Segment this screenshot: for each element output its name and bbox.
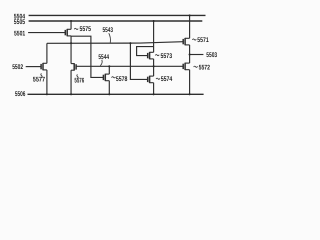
wire 5502 input line xyxy=(26,66,41,68)
svg-text:5576: 5576 xyxy=(74,78,84,85)
transistor Q5577 xyxy=(41,63,47,70)
wire 5504 to Q5571 drain xyxy=(189,15,191,38)
wire Q5573 gate-drain loop xyxy=(137,47,154,56)
transistor Q5575 xyxy=(65,29,71,36)
wire 5505 to Q5573 drain xyxy=(153,21,155,52)
svg-text:5577: 5577 xyxy=(33,76,45,83)
leader curve for 5544 xyxy=(100,60,102,66)
wire 5501 input line xyxy=(28,32,65,34)
svg-text:5503: 5503 xyxy=(206,52,217,59)
wire 5506 supply line xyxy=(28,93,204,95)
leader tilde for 5578 xyxy=(112,77,116,78)
svg-text:5505: 5505 xyxy=(14,19,25,26)
leader tilde for 5574 xyxy=(156,78,160,79)
wire 5543 to Q5574 gate xyxy=(130,43,147,79)
svg-text:5572: 5572 xyxy=(199,65,211,72)
svg-text:5543: 5543 xyxy=(103,27,114,34)
transistor Q5572 xyxy=(183,63,189,70)
wire node 5544 horizontal xyxy=(76,65,183,67)
leader tilde for 5573 xyxy=(155,55,159,56)
wire 5505 clock line xyxy=(29,20,203,22)
wire Q5576 source to 5506 xyxy=(70,70,72,94)
svg-text:5578: 5578 xyxy=(116,76,128,83)
wire Q5578 source to 5506 xyxy=(108,81,110,95)
transistor Q5574 xyxy=(148,76,154,83)
transistor Q5578 xyxy=(103,74,109,81)
wire Q5575 source down to Q5576 drain xyxy=(70,36,72,64)
wire Q5574 source to 5506 xyxy=(153,83,155,95)
leader lines xyxy=(41,28,198,79)
wire branch node 5543 to Q5578 gate xyxy=(71,36,103,78)
svg-text:5502: 5502 xyxy=(12,64,23,71)
svg-text:5544: 5544 xyxy=(98,54,109,61)
leader tilde for 5572 xyxy=(194,66,198,67)
wire 5504 clock line xyxy=(29,14,206,16)
leader squiggle for 5576 xyxy=(77,75,78,79)
wire Q5573 source to 5544 xyxy=(153,59,155,66)
svg-text:5506: 5506 xyxy=(15,91,26,98)
wire Q5571 source to Q5572 drain xyxy=(189,45,191,63)
transistor Q5571 xyxy=(183,38,189,45)
wire Q5575 drain to 5505 xyxy=(70,21,72,29)
svg-text:5573: 5573 xyxy=(161,53,173,60)
transistor Q5573 xyxy=(148,52,154,59)
wire 5543 corner to Q5577 drain xyxy=(46,43,48,63)
leader curve for 5543 xyxy=(109,33,111,42)
wire Q5574 drain to 5544 xyxy=(153,66,155,76)
svg-text:5574: 5574 xyxy=(161,76,173,83)
svg-text:5501: 5501 xyxy=(14,30,25,37)
leader tilde for 5571 xyxy=(192,39,196,40)
leader tilde for 5575 xyxy=(74,28,78,29)
wire Q5578 drain to 5544 xyxy=(108,66,110,74)
junction dots xyxy=(46,14,191,95)
wire node 5543 horizontal xyxy=(47,42,183,44)
wire Q5572 source to 5506 xyxy=(189,70,191,95)
transistor Q5576 (mirrored) xyxy=(71,63,76,70)
svg-text:5571: 5571 xyxy=(197,37,209,44)
wire Q5577 source to 5506 xyxy=(46,70,48,94)
svg-text:5575: 5575 xyxy=(80,26,92,33)
leader squiggle for 5577 xyxy=(41,74,42,78)
wire output node to 5503 xyxy=(190,54,204,56)
